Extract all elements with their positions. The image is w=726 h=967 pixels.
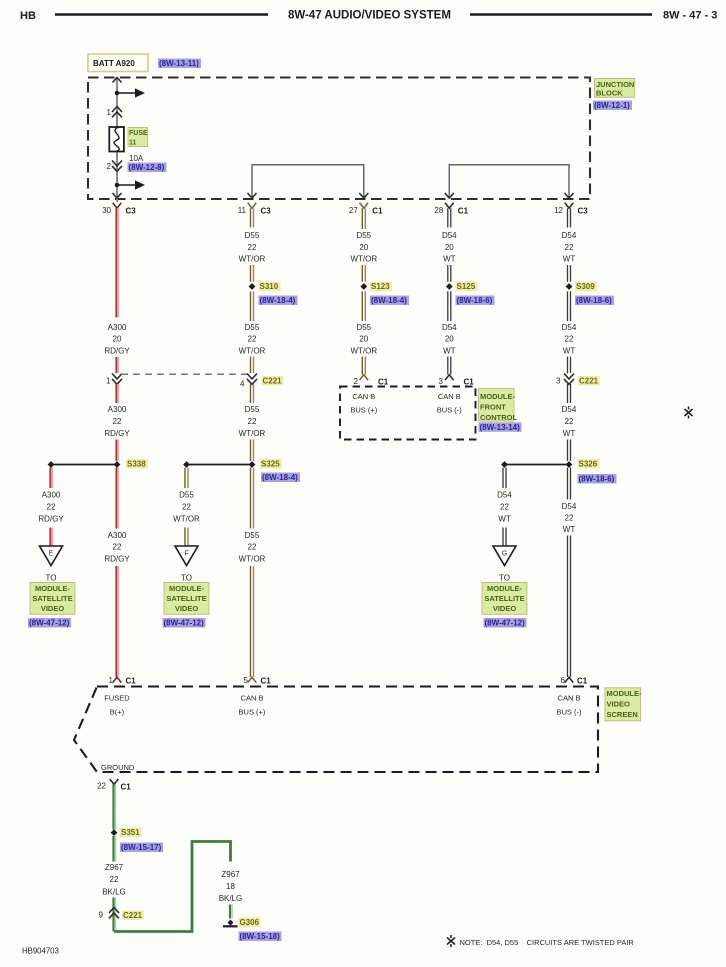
svg-text:D54: D54 (442, 323, 457, 332)
svg-text:WT/OR: WT/OR (239, 255, 266, 264)
svg-text:WT: WT (563, 255, 576, 264)
label D55 22 WT/OR branch (173, 490, 200, 523)
reference 8W-18-4 b (261, 473, 300, 483)
reference 8W-47-12 G (484, 618, 527, 628)
svg-text:22: 22 (565, 243, 574, 252)
label D55 22 WT/OR (239, 231, 266, 263)
svg-text:22: 22 (565, 513, 574, 522)
reference 8W-12-1 (593, 101, 632, 111)
svg-text:WT: WT (443, 346, 456, 355)
svg-text:4: 4 (240, 380, 245, 389)
svg-text:S338: S338 (127, 460, 146, 469)
svg-text:(8W-47-12): (8W-47-12) (485, 619, 526, 628)
svg-text:2: 2 (107, 162, 112, 171)
reference 8W-18-4 c (370, 296, 409, 306)
reference 8W-15-18 (239, 932, 282, 942)
svg-text:3: 3 (556, 377, 561, 386)
wire D54 20 upper (448, 208, 451, 227)
svg-text:WT: WT (498, 514, 511, 523)
fuse label FUSE 11 (128, 128, 148, 147)
svg-text:20: 20 (445, 243, 454, 252)
svg-text:BUS (+): BUS (+) (239, 707, 266, 716)
svg-text:(8W-13-14): (8W-13-14) (480, 423, 521, 432)
junction block bus bracket right (449, 165, 569, 198)
svg-text:WT/OR: WT/OR (239, 554, 266, 563)
fuse F11 (109, 127, 124, 152)
label D55 20 WT/OR 2 (350, 323, 377, 356)
svg-text:C1: C1 (378, 378, 389, 387)
svg-text:SCREEN: SCREEN (607, 710, 638, 719)
module front control outline (340, 387, 476, 440)
svg-text:1: 1 (109, 676, 114, 685)
svg-text:SATELLITE: SATELLITE (484, 594, 524, 603)
svg-text:CAN B: CAN B (241, 694, 264, 703)
svg-text:S325: S325 (261, 460, 280, 469)
label D55 22 WT/OR lower (239, 531, 266, 563)
splice S309 (566, 283, 573, 290)
svg-text:MODULE-: MODULE- (480, 392, 515, 401)
label D54 20 WT 2 (442, 323, 457, 356)
svg-text:(8W-18-4): (8W-18-4) (262, 473, 298, 482)
svg-text:Z967: Z967 (105, 863, 124, 872)
svg-text:VIDEO: VIDEO (175, 604, 199, 613)
ground G306 (223, 920, 238, 927)
svg-text:22: 22 (500, 502, 509, 511)
module front control label (479, 388, 518, 422)
label D54 22 WT branch (497, 490, 512, 523)
wire Z967 22 (114, 784, 116, 829)
svg-text:A300: A300 (108, 405, 127, 414)
wire D54 22 upper (568, 208, 571, 227)
svg-text:RD/GY: RD/GY (104, 346, 130, 355)
svg-text:20: 20 (359, 243, 368, 252)
svg-text:A300: A300 (108, 531, 127, 540)
svg-text:D54: D54 (562, 231, 577, 240)
svg-text:Z967: Z967 (221, 870, 240, 879)
svg-text:SATELLITE: SATELLITE (166, 594, 206, 603)
svg-text:CAN B: CAN B (558, 694, 581, 703)
label A300 22 RD/GY branch (38, 490, 64, 523)
label Z967 18 BK/LG (219, 870, 243, 903)
svg-text:11: 11 (238, 206, 247, 215)
svg-text:22: 22 (248, 417, 257, 426)
svg-text:6: 6 (561, 676, 566, 685)
label Z967 22 BK/LG (102, 863, 126, 896)
reference 8W-47-12 (28, 618, 71, 628)
svg-text:C3: C3 (261, 207, 272, 216)
svg-text:22: 22 (565, 417, 574, 426)
label D54 22 WT (562, 231, 577, 263)
svg-text:D54: D54 (562, 405, 577, 414)
connector C1 pin 28 (434, 203, 468, 216)
svg-text:2: 2 (354, 377, 359, 386)
svg-text:S310: S310 (260, 282, 279, 291)
header rule right (470, 13, 652, 16)
svg-text:22: 22 (113, 543, 122, 552)
wire D54 22 mid (568, 384, 571, 403)
note at bottom (447, 935, 455, 947)
splice S310 (249, 283, 256, 290)
module satellite video label F (164, 583, 209, 615)
connector triangle F (175, 546, 198, 566)
svg-text:27: 27 (349, 206, 358, 215)
junction node above fuse (115, 88, 145, 97)
svg-text:20: 20 (445, 335, 454, 344)
label D55 22 WT/OR 3 (239, 405, 266, 438)
svg-text:C1: C1 (126, 677, 137, 686)
svg-text:MODULE-: MODULE- (35, 584, 70, 593)
connector C3 pin 30 (102, 203, 136, 216)
svg-text:22: 22 (565, 335, 574, 344)
svg-text:22: 22 (248, 335, 257, 344)
arrow to BATT A920 (113, 78, 122, 83)
svg-text:C1: C1 (261, 677, 272, 686)
svg-text:(8W-12-1): (8W-12-1) (594, 101, 630, 110)
svg-text:C1: C1 (458, 207, 469, 216)
label D54 22 WT 3 (562, 405, 577, 438)
junction block outline (88, 78, 590, 200)
svg-text:C3: C3 (126, 207, 137, 216)
splice S351 (111, 829, 118, 836)
svg-text:22: 22 (182, 502, 191, 511)
label A300 20 RD/GY (104, 323, 130, 356)
splice S325 (183, 461, 255, 468)
splice S338 (48, 461, 121, 468)
svg-text:WT/OR: WT/OR (239, 429, 266, 438)
svg-text:(8W-13-11): (8W-13-11) (159, 59, 199, 68)
svg-text:BK/LG: BK/LG (102, 887, 126, 896)
svg-text:WT/OR: WT/OR (350, 346, 377, 355)
reference 8W-18-6 c (578, 474, 617, 484)
svg-text:D54: D54 (442, 231, 457, 240)
svg-text:TO: TO (46, 574, 57, 583)
svg-text:BUS (+): BUS (+) (350, 406, 377, 415)
svg-text:1: 1 (106, 377, 111, 386)
module video screen outline (74, 687, 598, 773)
svg-text:CAN B: CAN B (352, 392, 375, 401)
svg-text:VIDEO: VIDEO (41, 604, 65, 613)
twisted pair marker right (685, 407, 693, 419)
svg-text:28: 28 (434, 206, 443, 215)
svg-text:VIDEO: VIDEO (607, 700, 631, 709)
svg-text:30: 30 (102, 206, 111, 215)
svg-text:D55: D55 (356, 231, 371, 240)
wire A300 (116, 357, 118, 373)
label D54 20 WT (442, 231, 457, 263)
svg-text:BATT A920: BATT A920 (93, 59, 135, 68)
svg-text:1: 1 (107, 108, 112, 117)
svg-text:RD/GY: RD/GY (38, 514, 64, 523)
reference 8W-13-11 (158, 59, 201, 69)
svg-text:10A: 10A (129, 154, 144, 163)
wire link C221 dashed (121, 373, 247, 375)
svg-text:GROUND: GROUND (101, 763, 135, 772)
svg-text:(8W-18-6): (8W-18-6) (579, 475, 615, 484)
svg-text:JUNCTION: JUNCTION (596, 80, 634, 89)
wire D55 lower (251, 468, 254, 529)
label A300 22 RD/GY (104, 405, 130, 438)
splice S123 (360, 283, 367, 290)
svg-text:FUSE: FUSE (129, 130, 148, 137)
junction block label (595, 79, 635, 98)
svg-text:A300: A300 (42, 490, 61, 499)
svg-text:S351: S351 (121, 828, 140, 837)
svg-text:C221: C221 (579, 377, 599, 386)
svg-text:FUSED: FUSED (104, 694, 130, 703)
reference 8W-15-17 (120, 843, 163, 853)
svg-text:WT: WT (443, 255, 456, 264)
svg-text:C1: C1 (464, 378, 475, 387)
svg-text:5: 5 (244, 676, 249, 685)
label D55 22 WT/OR 2 (239, 323, 266, 356)
svg-text:8W - 47 - 3: 8W - 47 - 3 (663, 10, 717, 22)
svg-text:HB: HB (20, 10, 36, 22)
svg-text:SATELLITE: SATELLITE (32, 594, 72, 603)
svg-text:(8W-47-12): (8W-47-12) (29, 619, 70, 628)
svg-text:9: 9 (99, 911, 104, 920)
svg-text:(8W-18-6): (8W-18-6) (576, 296, 612, 305)
connector triangle G (493, 546, 516, 566)
reference 8W-18-4 (259, 296, 298, 306)
svg-text:D55: D55 (245, 405, 260, 414)
svg-text:BUS (-): BUS (-) (437, 406, 463, 415)
wire A300 to splice (116, 440, 118, 462)
svg-text:22: 22 (47, 502, 56, 511)
svg-text:22: 22 (110, 875, 119, 884)
svg-text:22: 22 (97, 782, 106, 791)
junction node below fuse (115, 180, 145, 189)
svg-text:(8W-18-4): (8W-18-4) (260, 296, 296, 305)
svg-text:MODULE-: MODULE- (487, 584, 522, 593)
svg-text:S326: S326 (579, 460, 598, 469)
wire A300 mid (116, 384, 118, 403)
svg-text:D55: D55 (245, 531, 260, 540)
splice S125 (446, 283, 453, 290)
header rule left (55, 13, 268, 16)
label D54 22 WT lower (562, 502, 577, 534)
svg-text:CAN B: CAN B (438, 392, 461, 401)
reference 8W-18-6 b (575, 296, 614, 306)
connector C1 pin 27 (349, 203, 383, 216)
svg-text:C221: C221 (263, 377, 283, 386)
wire A300 branch E (50, 468, 52, 489)
svg-text:WT: WT (563, 525, 576, 534)
connector C3 pin 11 (238, 203, 272, 216)
wire A300 lower (116, 468, 118, 529)
connector C3 pin 12 (554, 203, 588, 216)
svg-text:S125: S125 (457, 282, 476, 291)
connector triangle E (40, 546, 63, 566)
svg-text:RD/GY: RD/GY (104, 554, 130, 563)
label A300 22 RD/GY lower (104, 531, 130, 563)
node BATT A920 (88, 54, 148, 72)
svg-text:CONTROL: CONTROL (480, 413, 517, 422)
svg-text:20: 20 (359, 335, 368, 344)
svg-text:E: E (49, 551, 54, 558)
wire A300 upper (116, 208, 118, 317)
svg-text:(8W-12-8): (8W-12-8) (129, 163, 165, 172)
wire D55 branch F (185, 468, 188, 489)
wire Z967 routing (114, 842, 231, 932)
svg-text:WT: WT (563, 429, 576, 438)
label D55 20 WT/OR (350, 231, 377, 263)
reference 8W-18-6 (456, 296, 495, 306)
wire D54 lower (568, 468, 571, 500)
svg-text:A300: A300 (108, 323, 127, 332)
svg-text:D55: D55 (179, 490, 194, 499)
svg-text:(8W-18-6): (8W-18-6) (457, 296, 493, 305)
module satellite video label G (482, 583, 527, 615)
module video screen label (605, 688, 642, 721)
svg-text:NOTE: D54, D55 CIRCUITS AR: NOTE: D54, D55 CIRCUITS ARE TWISTED PAIR (460, 938, 635, 947)
svg-text:WT/OR: WT/OR (350, 255, 377, 264)
svg-text:WT/OR: WT/OR (173, 514, 200, 523)
svg-text:(8W-47-12): (8W-47-12) (164, 619, 205, 628)
svg-text:C1: C1 (372, 207, 383, 216)
svg-text:C1: C1 (577, 677, 588, 686)
wire battery feed (116, 79, 118, 203)
arrow into junction block bottom (113, 193, 122, 198)
svg-text:F: F (184, 551, 188, 558)
svg-text:MODULE-: MODULE- (169, 584, 204, 593)
svg-text:22: 22 (113, 417, 122, 426)
svg-text:BLOCK: BLOCK (596, 89, 623, 98)
svg-text:D54: D54 (562, 323, 577, 332)
svg-text:D55: D55 (245, 231, 260, 240)
reference 8W-47-12 F (163, 618, 206, 628)
splice S326 (501, 461, 572, 468)
reference 8W-12-8 (128, 163, 167, 173)
junction block bus bracket left (252, 165, 364, 198)
svg-text:D55: D55 (356, 323, 371, 332)
reference 8W-13-14 (479, 422, 522, 432)
svg-text:(8W-15-18): (8W-15-18) (240, 932, 281, 941)
svg-text:C221: C221 (123, 911, 143, 920)
svg-text:D54: D54 (497, 490, 512, 499)
svg-text:WT: WT (563, 346, 576, 355)
svg-text:C1: C1 (121, 783, 132, 792)
svg-text:FRONT: FRONT (480, 402, 506, 411)
svg-text:(8W-15-17): (8W-15-17) (121, 843, 162, 852)
label D54 22 WT 2 (562, 323, 577, 356)
svg-text:HB904703: HB904703 (22, 947, 59, 956)
svg-text:G306: G306 (240, 918, 260, 927)
wire D55 22 upper (251, 208, 254, 227)
svg-text:22: 22 (248, 243, 257, 252)
svg-text:18: 18 (226, 882, 235, 891)
svg-text:BUS (-): BUS (-) (557, 707, 583, 716)
svg-text:3: 3 (439, 377, 444, 386)
svg-text:B(+): B(+) (110, 707, 125, 716)
svg-text:BK/LG: BK/LG (219, 894, 243, 903)
svg-text:VIDEO: VIDEO (493, 604, 517, 613)
wire D55 20 upper (362, 208, 365, 229)
wire D54 branch G (503, 468, 506, 489)
svg-text:D55: D55 (245, 323, 260, 332)
svg-text:C3: C3 (578, 207, 589, 216)
svg-text:G: G (502, 551, 507, 558)
svg-text:D54: D54 (562, 502, 577, 511)
svg-text:MODULE-: MODULE- (607, 689, 642, 698)
svg-text:22: 22 (248, 543, 257, 552)
svg-text:RD/GY: RD/GY (104, 429, 130, 438)
svg-text:WT/OR: WT/OR (239, 346, 266, 355)
svg-text:20: 20 (113, 335, 122, 344)
module satellite video label E (30, 583, 75, 615)
svg-text:S123: S123 (371, 282, 390, 291)
wire D55 22 mid (251, 384, 254, 403)
svg-text:S309: S309 (576, 282, 595, 291)
svg-text:12: 12 (554, 206, 563, 215)
svg-text:8W-47 AUDIO/VIDEO SYSTEM: 8W-47 AUDIO/VIDEO SYSTEM (288, 10, 451, 22)
svg-text:(8W-18-4): (8W-18-4) (371, 296, 407, 305)
svg-text:TO: TO (499, 574, 510, 583)
svg-text:11: 11 (129, 140, 137, 147)
svg-text:TO: TO (181, 574, 192, 583)
